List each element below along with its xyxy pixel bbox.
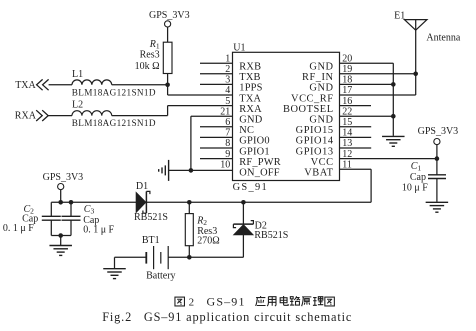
wire: U1 pin 15 stub bbox=[340, 126, 372, 128]
svg-text:D1: D1 bbox=[136, 181, 148, 192]
wire: RXA to L2 bbox=[48, 115, 72, 117]
svg-text:Cap: Cap bbox=[410, 172, 426, 183]
svg-text:NC: NC bbox=[239, 125, 254, 136]
svg-text:RXA: RXA bbox=[15, 111, 37, 122]
node: C2/C3 ground junction bbox=[58, 233, 63, 238]
wire: U1 pin 22 to ground rail bbox=[340, 115, 394, 117]
wire: antenna to RF_IN bbox=[415, 20, 417, 74]
svg-text:GND: GND bbox=[309, 83, 333, 94]
node: pin18 junction bbox=[391, 82, 396, 87]
svg-text:BLM18AG121SN1D: BLM18AG121SN1D bbox=[72, 87, 156, 97]
svg-text:GPIO0: GPIO0 bbox=[239, 136, 269, 147]
wire: battery to R2 bbox=[168, 256, 189, 258]
wire: U1 pin 21 to ground bbox=[191, 115, 233, 117]
caption line 1 (Chinese) bbox=[175, 297, 185, 306]
ground (left of U1) bbox=[168, 160, 170, 181]
svg-text:L2: L2 bbox=[72, 100, 83, 111]
svg-text:10 μ F: 10 μ F bbox=[402, 182, 428, 193]
svg-text:ON_OFF: ON_OFF bbox=[239, 168, 279, 179]
svg-text:BOOTSEL: BOOTSEL bbox=[283, 104, 334, 115]
svg-text:Battery: Battery bbox=[146, 270, 175, 281]
svg-text:GND: GND bbox=[309, 62, 333, 73]
node: rail/R2 junction bbox=[187, 200, 192, 205]
capacitor C1 bbox=[436, 159, 438, 175]
wire: U1 pin 2 stub bbox=[200, 73, 233, 75]
svg-text:GND: GND bbox=[309, 115, 333, 126]
svg-text:GPS_3V3: GPS_3V3 bbox=[149, 10, 190, 21]
capacitor C3 bbox=[69, 200, 74, 205]
wire: U1 pin 10 to ground bbox=[169, 169, 233, 171]
svg-text:2: 2 bbox=[189, 297, 195, 309]
svg-text:TXA: TXA bbox=[239, 93, 261, 104]
wire: U1 pin 12 VCC to GPS_3V3 bbox=[340, 158, 437, 160]
wire: TXA to L1 bbox=[49, 84, 72, 86]
svg-text:GPS_3V3: GPS_3V3 bbox=[43, 172, 84, 183]
svg-text:GND: GND bbox=[239, 115, 262, 126]
diode D2 bbox=[242, 202, 244, 224]
svg-text:Fig.2 GS–91 application circ: Fig.2 GS–91 application circuit schemati… bbox=[102, 310, 352, 324]
svg-text:C3: C3 bbox=[84, 204, 95, 216]
wire: GPS_3V3 to R1 bbox=[167, 27, 169, 42]
wire: U1 pin 6 stub bbox=[200, 126, 233, 128]
svg-text:GPIO13: GPIO13 bbox=[296, 146, 334, 157]
svg-text:0. 1 μ F: 0. 1 μ F bbox=[3, 223, 34, 234]
svg-text:GPS_3V3: GPS_3V3 bbox=[418, 126, 459, 137]
ground (below C2/C3) bbox=[49, 245, 71, 247]
svg-text:RB521S: RB521S bbox=[134, 212, 168, 223]
svg-text:U1: U1 bbox=[233, 42, 245, 53]
capacitor C2 bbox=[50, 202, 52, 216]
wire: R1 to TXA node bbox=[167, 74, 169, 85]
wire: L1 to U1 pin 4 bbox=[112, 84, 168, 86]
svg-text:RB521S: RB521S bbox=[254, 230, 288, 241]
svg-text:0. 1 μ F: 0. 1 μ F bbox=[83, 224, 114, 235]
svg-text:BLM18AG121SN1D: BLM18AG121SN1D bbox=[72, 118, 156, 128]
node: R1/TXA junction bbox=[165, 83, 170, 88]
wire: U1 pin 16 stub bbox=[340, 105, 372, 107]
node: pin21/pin10 junction bbox=[189, 168, 194, 173]
wire: bottom net bbox=[189, 256, 243, 258]
wire: C2/C3 bottoms bbox=[51, 235, 71, 237]
resistor R2 bbox=[188, 202, 190, 213]
svg-text:RF_PWR: RF_PWR bbox=[239, 157, 281, 168]
IC U1 GS_91 bbox=[233, 52, 340, 180]
node: R2/battery junction bbox=[187, 255, 192, 260]
svg-text:BT1: BT1 bbox=[142, 235, 160, 246]
svg-text:TXA: TXA bbox=[15, 80, 36, 91]
wire: C1 to ground bbox=[436, 179, 438, 202]
wire: U1 pin 8 stub bbox=[200, 147, 233, 149]
resistor R1 bbox=[163, 42, 172, 73]
svg-text:Res3: Res3 bbox=[140, 49, 160, 60]
svg-text:10: 10 bbox=[220, 159, 230, 170]
svg-text:RXA: RXA bbox=[239, 104, 262, 115]
wire: battery to ground bbox=[115, 256, 147, 258]
ground (battery) bbox=[103, 268, 126, 270]
svg-text:GPIO1: GPIO1 bbox=[239, 146, 269, 157]
wire: U1 pin 13 stub bbox=[340, 147, 372, 149]
node: rail/D2 junction bbox=[241, 200, 246, 205]
wire: U1 pin 7 stub bbox=[200, 136, 233, 138]
wire: U1 pin 17 VCC_RF bbox=[340, 94, 416, 96]
svg-text:270Ω: 270Ω bbox=[197, 236, 219, 247]
wire: antenna node to VCC_RF bbox=[415, 74, 417, 95]
wire: U1 pin 3 stub bbox=[200, 83, 233, 85]
svg-text:E1: E1 bbox=[394, 10, 405, 21]
svg-text:VCC: VCC bbox=[311, 157, 334, 168]
svg-text:Antenna: Antenna bbox=[426, 32, 460, 43]
wire: U1 pin 18 to ground rail bbox=[340, 83, 394, 85]
wire: U1 pin 1 stub bbox=[200, 62, 233, 64]
svg-text:10k Ω: 10k Ω bbox=[135, 61, 160, 72]
svg-text:C1: C1 bbox=[411, 161, 422, 173]
svg-text:GPIO15: GPIO15 bbox=[296, 125, 334, 136]
svg-text:RF_IN: RF_IN bbox=[302, 72, 334, 83]
wire: U1 pin 20 to ground rail bbox=[340, 62, 394, 64]
node: pin22 junction bbox=[391, 114, 396, 119]
wire: U1 pin 9 stub bbox=[200, 158, 233, 160]
node: RF_IN junction bbox=[413, 72, 418, 77]
wire: L2 to U1 pin 5 bbox=[112, 115, 168, 117]
svg-text:GS_91: GS_91 bbox=[233, 182, 268, 193]
svg-text:GPIO14: GPIO14 bbox=[296, 136, 334, 147]
wire: VBAT rail bbox=[146, 201, 371, 203]
ground (below C1) bbox=[426, 201, 449, 203]
svg-text:RXB: RXB bbox=[239, 62, 261, 73]
svg-text:L1: L1 bbox=[72, 69, 83, 80]
wire: U1 pin 11 VBAT to rail bbox=[340, 168, 372, 170]
node: VCC/C1 junction bbox=[435, 156, 440, 161]
svg-text:VCC_RF: VCC_RF bbox=[291, 93, 334, 104]
wire: U1 pin 19 RF_IN bbox=[340, 73, 416, 75]
wire: U1 pin 14 stub bbox=[340, 136, 372, 138]
svg-text:1PPS: 1PPS bbox=[239, 83, 262, 94]
svg-text:VBAT: VBAT bbox=[304, 168, 333, 179]
svg-text:GS–91: GS–91 bbox=[207, 295, 246, 309]
svg-text:TXB: TXB bbox=[239, 72, 260, 83]
ground (right of U1) bbox=[382, 135, 405, 137]
node: GPS_3V3/rail junction bbox=[58, 200, 63, 205]
